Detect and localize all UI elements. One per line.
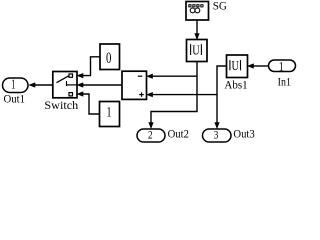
svg-text:1: 1 [11, 78, 15, 93]
svg-text:Out2: Out2 [168, 129, 190, 141]
svg-text:Switch: Switch [44, 100, 78, 112]
svg-text:1: 1 [106, 105, 111, 121]
svg-text:U: U [192, 44, 199, 59]
svg-text:1: 1 [279, 58, 284, 73]
svg-text:Abs1: Abs1 [224, 80, 248, 92]
svg-text:SG: SG [213, 0, 227, 12]
svg-text:Out3: Out3 [233, 129, 255, 141]
svg-text:3: 3 [214, 130, 219, 142]
svg-text:Out1: Out1 [3, 94, 25, 106]
svg-text:0: 0 [106, 50, 112, 67]
svg-text:In1: In1 [278, 77, 292, 89]
svg-text:U: U [232, 59, 239, 74]
svg-text:2: 2 [148, 130, 153, 142]
